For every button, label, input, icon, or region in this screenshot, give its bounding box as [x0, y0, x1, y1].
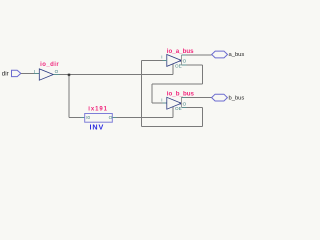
label INV	[90, 122, 105, 131]
label io_a_bus	[167, 48, 194, 55]
label io_dir	[40, 62, 59, 68]
wire b_bus node feedback to io_a_bus input	[141, 61, 202, 127]
svg-text:a_bus: a_bus	[229, 52, 245, 58]
buffer io_dir body	[39, 69, 53, 80]
port b_bus label text	[229, 95, 245, 101]
svg-text:io_dir: io_dir	[40, 62, 59, 68]
svg-text:b_bus: b_bus	[229, 95, 245, 101]
svg-text:O: O	[183, 101, 187, 106]
wire INV output to OE of io_b_bus	[112, 107, 173, 118]
tri-state buffer io_a_bus body	[167, 55, 182, 67]
svg-text:io_b_bus: io_b_bus	[167, 91, 195, 98]
wire io_dir output to OE of io_a_bus (net DIR)	[53, 64, 173, 75]
junction dot at io_a_bus pad node	[180, 60, 182, 62]
svg-text:INV: INV	[90, 122, 105, 131]
port b_bus (bidirectional port symbol)	[212, 94, 228, 101]
junction dot at io_b_bus pad node	[180, 102, 182, 104]
svg-text:OE: OE	[175, 106, 182, 111]
tri-state buffer io_b_bus body	[167, 97, 182, 109]
wire junction down to INV input	[69, 74, 85, 117]
wire dir port to io_dir input	[21, 73, 40, 75]
svg-text:dir: dir	[2, 70, 9, 77]
svg-text:O: O	[109, 115, 113, 120]
wire io_b_bus pad to b_bus port	[182, 97, 212, 99]
pin label OE of io_b_bus	[175, 106, 182, 111]
svg-text:I: I	[161, 98, 162, 103]
svg-text:O: O	[55, 69, 59, 74]
svg-text:O: O	[183, 59, 187, 64]
pin label OE of io_a_bus	[175, 63, 182, 68]
svg-text:ix191: ix191	[88, 107, 108, 113]
svg-text:I0: I0	[86, 115, 90, 120]
svg-text:io_a_bus: io_a_bus	[167, 48, 194, 55]
wire a_bus node feedback to io_b_bus input	[152, 65, 203, 103]
svg-text:I: I	[161, 55, 162, 60]
inverter ix191 INV body	[85, 114, 113, 123]
port a_bus (bidirectional port symbol)	[212, 51, 228, 58]
port a_bus label text	[229, 52, 245, 58]
svg-text:OE: OE	[175, 63, 182, 68]
label ix191	[88, 107, 108, 113]
pin label O of io_dir	[55, 69, 59, 74]
svg-text:I: I	[34, 69, 35, 74]
pin label O of io_a_bus	[183, 59, 187, 64]
pin label I of io_a_bus	[161, 55, 162, 60]
label io_b_bus	[167, 91, 195, 98]
wire io_b_bus pad riser	[181, 97, 183, 108]
port dir label text	[2, 70, 9, 77]
pin label I0 of INV	[86, 115, 90, 120]
junction dot on DIR net	[68, 74, 70, 76]
pin label O of io_b_bus	[183, 101, 187, 106]
pin label I of io_b_bus	[161, 98, 162, 103]
wire io_a_bus pad to a_bus port	[181, 54, 211, 56]
pin label O of INV	[109, 115, 113, 120]
wire io_a_bus pad riser	[180, 55, 182, 65]
pin label I of io_dir	[34, 69, 35, 74]
port dir (input port symbol)	[12, 70, 21, 76]
